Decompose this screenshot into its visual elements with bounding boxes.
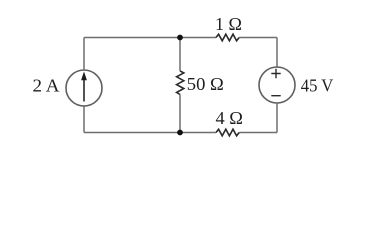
- wire middle branch bottom: [179, 94, 181, 132]
- resistor R3 4 ohm (bottom): [216, 129, 239, 136]
- resistor R1 1 ohm (top): [216, 34, 239, 41]
- arrow of current source: [83, 79, 85, 102]
- wire right-bottom: voltage source to bottom-right corner: [276, 103, 278, 133]
- plus sign: [271, 69, 280, 78]
- wire left-top: current source up to top-left corner: [83, 38, 85, 71]
- wire top-right: resistor to top-right corner: [239, 37, 277, 39]
- svg-text:1 Ω: 1 Ω: [215, 14, 242, 34]
- svg-text:4 Ω: 4 Ω: [216, 108, 244, 128]
- svg-text:50 Ω: 50 Ω: [187, 74, 224, 94]
- current source I1 2 A: [66, 70, 102, 106]
- resistor R2 50 ohm (middle, vertical): [177, 71, 184, 95]
- junction node bottom: [177, 130, 183, 136]
- wire right-top: corner down to voltage source: [276, 38, 278, 68]
- svg-text:45 V: 45 V: [301, 75, 334, 95]
- minus sign: [271, 95, 280, 97]
- wire bottom-right: corner to 4-ohm resistor: [239, 132, 277, 134]
- wire left-bottom: corner up to current source: [83, 106, 85, 133]
- wire middle branch top: [179, 38, 181, 71]
- voltage source U1 45 V: [259, 67, 295, 103]
- wire top-left: top node from left corner to 1-ohm resistor: [84, 37, 216, 39]
- svg-text:2 A: 2 A: [33, 75, 60, 95]
- wire bottom-left: resistor to bottom-left corner: [84, 132, 216, 134]
- junction node top: [177, 35, 183, 41]
